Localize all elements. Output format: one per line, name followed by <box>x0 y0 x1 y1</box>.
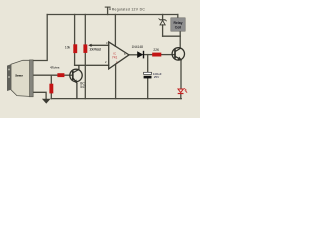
svg-text:741: 741 <box>112 56 118 60</box>
svg-text:25V: 25V <box>154 75 160 79</box>
svg-text:Relay: Relay <box>173 21 182 25</box>
svg-text:Regulated 12V DC: Regulated 12V DC <box>112 7 146 11</box>
svg-text:10k Preset: 10k Preset <box>89 48 101 52</box>
svg-text:547: 547 <box>80 85 86 89</box>
svg-text:Coil: Coil <box>175 26 181 30</box>
svg-text:Sensor: Sensor <box>15 73 24 77</box>
svg-text:10k: 10k <box>65 45 71 49</box>
svg-text:22K: 22K <box>153 48 160 52</box>
svg-text:1N4148: 1N4148 <box>132 45 144 49</box>
svg-text:470 ohms: 470 ohms <box>50 66 60 70</box>
